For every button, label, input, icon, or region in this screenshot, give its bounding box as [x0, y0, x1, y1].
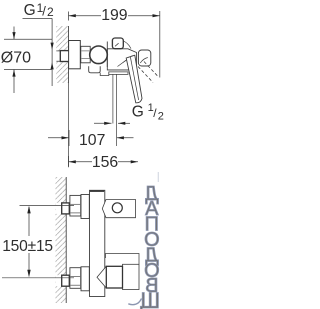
supply pipe channel through wall [56, 51, 69, 62]
outlet pipe down [113, 74, 117, 146]
svg-text:107: 107 [79, 132, 105, 149]
svg-text:156: 156 [92, 154, 119, 171]
svg-text:/: / [42, 3, 46, 18]
dimension 107 [48, 130, 134, 149]
svg-text:2: 2 [47, 5, 54, 19]
dimension 150+-15 [2, 206, 53, 278]
housing left edge / extension line down [106, 42, 108, 68]
top inlet union nut [70, 195, 81, 216]
wall hatch (plan view) [56, 26, 68, 167]
wall hatch (front view) [56, 177, 67, 303]
svg-text:G: G [132, 103, 144, 120]
top outlet cylinder with check circle [102, 200, 135, 218]
cartridge ball [90, 46, 108, 64]
watermark (vertical shop text, mirrored upright letters) [139, 183, 160, 309]
G1/2 outlet leader arrows [94, 122, 130, 125]
center line top connection [20, 205, 75, 207]
top inlet escutcheon [81, 195, 89, 219]
svg-text:G: G [24, 2, 36, 19]
top inlet: wall fitting [56, 203, 70, 214]
union nut [81, 46, 90, 63]
head block [107, 49, 136, 70]
svg-text:Ø70: Ø70 [1, 50, 31, 67]
svg-text:199: 199 [101, 7, 128, 24]
svg-text:2: 2 [158, 110, 164, 122]
bottom shower outlet assembly [97, 254, 139, 290]
bottom inlet escutcheon [81, 267, 89, 291]
svg-text:Щ: Щ [139, 288, 160, 309]
lever dashed alternate position [138, 62, 159, 83]
label G 1/2 outlet [132, 102, 164, 122]
label G 1/2 top [23, 1, 55, 19]
temperature stop button [112, 38, 123, 49]
dimension 156 (wall to spout) [69, 154, 139, 171]
bottom inlet union nut [70, 268, 81, 289]
lever handle (solid) [126, 55, 142, 103]
watermark tail curl [128, 299, 141, 305]
center line bottom connection [2, 277, 74, 279]
wall union square fitting [60, 51, 69, 62]
faint watermark remnant [157, 172, 159, 182]
head end rounded cap [124, 41, 151, 66]
svg-text:150±15: 150±15 [2, 238, 53, 255]
dimension O70 [1, 27, 52, 94]
bottom strip under body [89, 66, 128, 75]
body column [90, 190, 105, 296]
dimension 199 [69, 7, 160, 77]
escutcheon flange (O70) [69, 41, 81, 69]
bottom inlet: wall fitting [56, 275, 70, 286]
G1/2 leader line with arrows [51, 18, 54, 86]
